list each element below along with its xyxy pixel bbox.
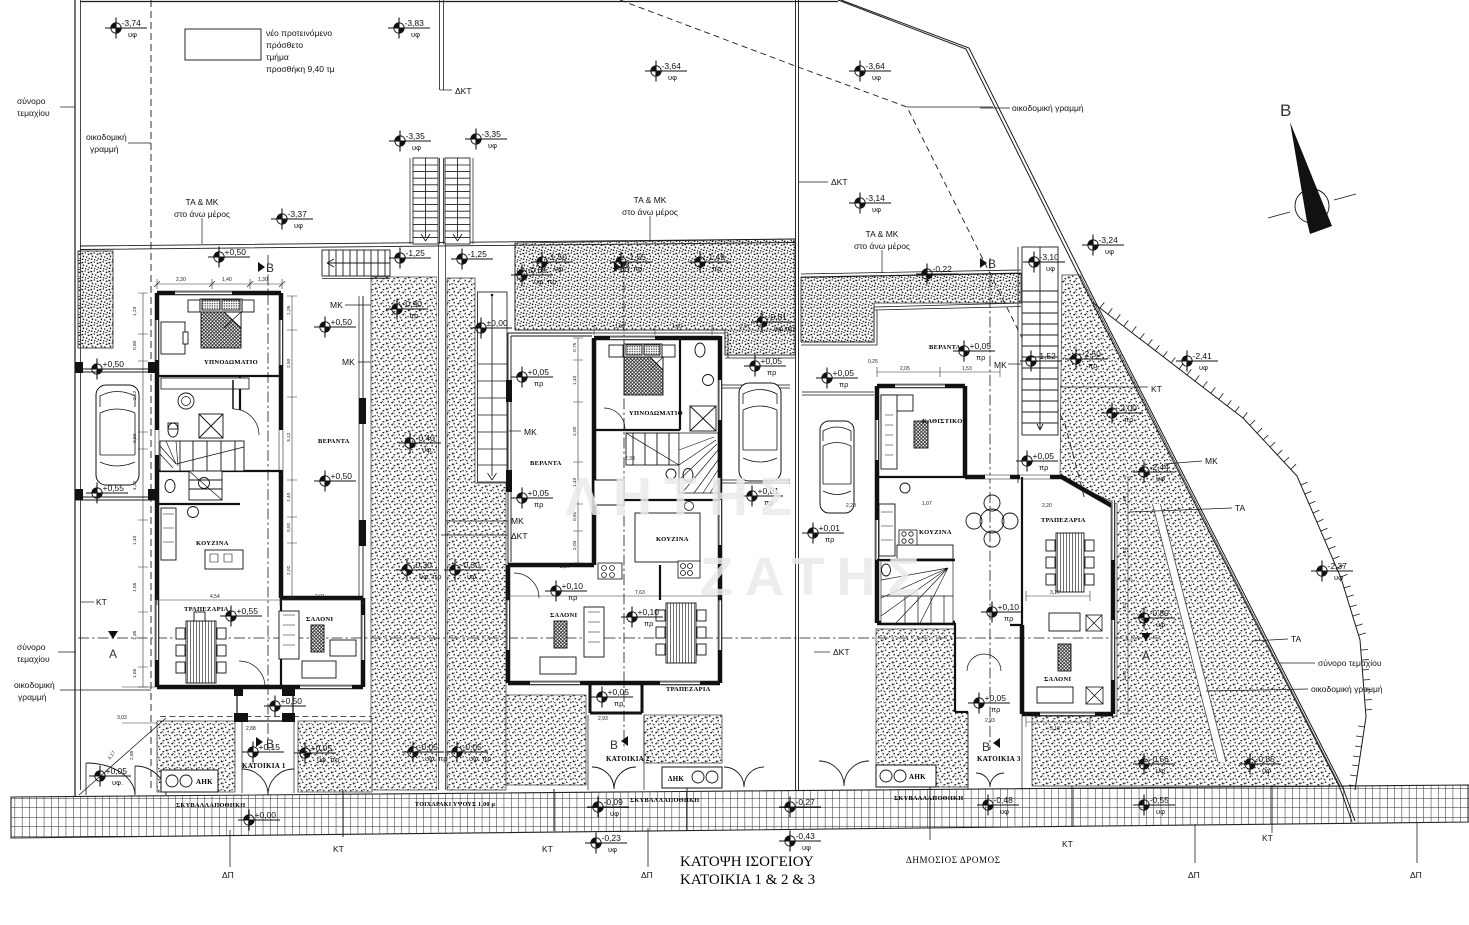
dining table house1	[176, 612, 226, 683]
dense stipple band above house 2	[515, 239, 795, 355]
svg-text:+0,10: +0,10	[562, 581, 584, 591]
svg-text:B: B	[988, 257, 996, 271]
svg-text:+0,50: +0,50	[225, 247, 247, 257]
svg-text:πρ: πρ	[1124, 415, 1133, 424]
svg-text:-0,05: -0,05	[419, 742, 439, 752]
svg-text:ΚΤ: ΚΤ	[333, 844, 344, 854]
svg-text:ΛΗΤΗΣ: ΛΗΤΗΣ	[565, 467, 804, 527]
veranda 2 boundary	[508, 333, 592, 565]
car 2	[739, 383, 781, 481]
svg-text:-0,30: -0,30	[413, 560, 433, 570]
svg-text:+0,05: +0,05	[761, 356, 783, 366]
svg-text:ΒΕΡΑΝΤΑ: ΒΕΡΑΝΤΑ	[318, 438, 350, 445]
svg-text:ΑΗΚ: ΑΗΚ	[196, 778, 213, 786]
svg-text:πρόσθετο: πρόσθετο	[266, 40, 303, 50]
svg-text:-3,83: -3,83	[405, 18, 425, 28]
svg-text:2,12: 2,12	[132, 390, 138, 400]
DKT divider plot2/3 double vertical	[796, 0, 799, 790]
svg-text:1,40: 1,40	[222, 277, 232, 283]
svg-text:B: B	[266, 261, 274, 275]
svg-text:-1,49: -1,49	[706, 252, 726, 262]
svg-text:υφ. πρ.: υφ. πρ.	[534, 277, 559, 286]
svg-text:υφ: υφ	[1156, 620, 1165, 629]
spot elevation -0,48 υφ	[977, 795, 1019, 817]
svg-text:ΚΟΥΖΙΝΑ: ΚΟΥΖΙΝΑ	[196, 540, 229, 547]
svg-text:τμήμα: τμήμα	[266, 52, 289, 62]
svg-text:+0,05: +0,05	[608, 687, 630, 697]
wc house1	[165, 480, 175, 493]
bath door arc	[233, 409, 259, 435]
stairs house1 upper run	[160, 441, 244, 471]
svg-text:ΣΑΛΟΝΙ: ΣΑΛΟΝΙ	[550, 612, 577, 619]
svg-text:1,40: 1,40	[132, 535, 138, 545]
svg-text:+0,05: +0,05	[985, 693, 1007, 703]
svg-text:ΚΟΥΖΙΝΑ: ΚΟΥΖΙΝΑ	[656, 536, 689, 543]
svg-text:ΣΚΥΒΑΛΛΑΠΟΘΗΚΗ: ΣΚΥΒΑΛΛΑΠΟΘΗΚΗ	[630, 797, 699, 804]
dim chain house1 left	[138, 293, 148, 687]
spot elevation -0,30 υφ.	[444, 560, 486, 582]
svg-text:B: B	[622, 261, 630, 275]
svg-text:προσθήκη 9,40 τμ: προσθήκη 9,40 τμ	[266, 64, 335, 74]
sofa L kathistiko	[881, 395, 913, 469]
svg-text:ΔΚΤ: ΔΚΤ	[833, 647, 850, 657]
stipple patch left boundary	[78, 251, 113, 348]
svg-text:-0,81: -0,81	[768, 312, 788, 322]
svg-text:-2,37: -2,37	[1328, 561, 1348, 571]
svg-text:στο άνω μέρος: στο άνω μέρος	[174, 209, 230, 219]
spot elevation -0,56 υφ	[1133, 754, 1175, 776]
watermark faint	[565, 467, 932, 607]
living door arc house2	[514, 573, 539, 598]
svg-text:0,92: 0,92	[286, 522, 292, 532]
svg-text:-0,05: -0,05	[463, 742, 483, 752]
leader synoro right	[1279, 662, 1315, 664]
driveway diagonal plot1	[79, 718, 166, 795]
house 2 exterior walls	[508, 336, 720, 683]
entrance door arc house1	[239, 661, 265, 687]
svg-text:5,70: 5,70	[1122, 670, 1128, 680]
svg-text:-3,37: -3,37	[288, 209, 308, 219]
plot2 terrace lower lines	[515, 243, 795, 358]
svg-text:υφ: υφ	[1199, 363, 1208, 372]
leader synoro/oikodomiki left lower	[58, 652, 151, 690]
house 3 window gaps	[877, 386, 1113, 714]
svg-text:B: B	[610, 738, 618, 752]
stipple patch house2 entrance left	[506, 695, 586, 785]
spot elevation +0,05 πρ	[744, 356, 786, 378]
svg-text:4,54: 4,54	[210, 594, 220, 600]
walkway edges house2	[588, 715, 644, 790]
svg-text:-1,25: -1,25	[468, 249, 488, 259]
svg-text:υφ. πρ: υφ. πρ	[317, 755, 340, 764]
top boundary	[80, 1, 838, 3]
svg-text:+0,00: +0,00	[255, 810, 277, 820]
svg-text:ΚΑΤΟΙΚΙΑ 1 & 2 & 3: ΚΑΤΟΙΚΙΑ 1 & 2 & 3	[680, 872, 815, 888]
svg-text:υφ: υφ	[488, 141, 497, 150]
house 1 exterior walls	[157, 293, 363, 687]
svg-text:ΤΑ: ΤΑ	[1291, 634, 1302, 644]
walkway edges house1	[242, 721, 294, 793]
svg-text:2,20: 2,20	[846, 503, 856, 509]
svg-text:πρ: πρ	[534, 379, 543, 388]
svg-text:-0,85: -0,85	[1256, 754, 1276, 764]
svg-text:ΒΕΡΑΝΤΑ: ΒΕΡΑΝΤΑ	[530, 460, 562, 467]
svg-text:3,13: 3,13	[1050, 726, 1060, 732]
leader synoro top-left	[60, 106, 75, 108]
svg-text:+0,05: +0,05	[106, 766, 128, 776]
desk house1	[161, 322, 185, 354]
stairs house2 run	[626, 433, 679, 465]
leader DKT top center	[440, 89, 452, 91]
svg-text:ΥΠΝΟΔΩΜΑΤΙΟ: ΥΠΝΟΔΩΜΑΤΙΟ	[204, 359, 258, 366]
leader oikodomiki top-right	[980, 107, 1010, 109]
corridor edges house3	[968, 712, 1022, 790]
svg-text:+0,55: +0,55	[237, 606, 259, 616]
outdoor stair left of house 2	[478, 292, 508, 482]
svg-text:-3,64: -3,64	[662, 61, 682, 71]
svg-text:-3,74: -3,74	[122, 18, 142, 28]
svg-text:ΑΗΚ: ΑΗΚ	[909, 773, 926, 781]
svg-text:οικοδομική: οικοδομική	[14, 680, 55, 690]
svg-text:ΔΠ: ΔΠ	[222, 870, 234, 880]
svg-text:-2,44: -2,44	[1150, 462, 1170, 472]
road leader DP lines	[230, 822, 1417, 867]
svg-text:ΚΤ: ΚΤ	[1262, 833, 1273, 843]
svg-text:ΜΚ: ΜΚ	[330, 300, 343, 310]
horizontal stair landing left of stair A	[322, 250, 390, 279]
spot elevation -1,25	[451, 249, 493, 270]
svg-text:οικοδομική γραμμή: οικοδομική γραμμή	[1012, 103, 1084, 113]
svg-text:2,93: 2,93	[598, 716, 608, 722]
upper region bottom double line	[80, 239, 795, 250]
spot elevation -0,55 υφ	[1133, 795, 1175, 817]
house 2 interior partitions	[594, 338, 720, 600]
svg-text:1,60: 1,60	[1122, 495, 1128, 505]
spot elevation +0,05 πρ	[511, 367, 553, 389]
stipple band between house 1 and 2	[371, 277, 437, 790]
svg-text:2,89: 2,89	[129, 750, 135, 760]
svg-text:ΤΑ & ΜΚ: ΤΑ & ΜΚ	[186, 197, 219, 207]
dim house2 bottom interior	[508, 591, 720, 601]
svg-text:1,53: 1,53	[615, 324, 625, 330]
svg-text:υφ.: υφ.	[112, 778, 123, 787]
stipple patch house3 entrance left	[876, 629, 968, 787]
svg-text:στο άνω μέρος: στο άνω μέρος	[854, 241, 910, 251]
svg-text:-0,55: -0,55	[1150, 795, 1170, 805]
svg-text:υφ πρ: υφ πρ	[774, 324, 795, 333]
house 3 interior partitions	[877, 477, 1022, 625]
svg-text:±0,00: ±0,00	[487, 318, 508, 328]
dim chain house1 right	[287, 296, 297, 598]
AHK box 3	[876, 765, 936, 787]
car 1	[96, 385, 139, 485]
svg-text:υφ: υφ	[608, 845, 617, 854]
svg-text:ΚΑΤΟΙΚΙΑ 2: ΚΑΤΟΙΚΙΑ 2	[606, 755, 650, 763]
carport 2	[722, 385, 790, 483]
svg-text:οικοδομική: οικοδομική	[86, 132, 127, 142]
winder stairs house2	[679, 433, 718, 493]
svg-text:2,02: 2,02	[286, 565, 292, 575]
spot elevation -3,35 υφ	[465, 129, 507, 151]
svg-text:πρ: πρ	[712, 264, 721, 273]
svg-text:2,03: 2,03	[572, 540, 578, 550]
dim chain house3 top	[877, 367, 1000, 377]
bed house2	[609, 344, 675, 395]
spot elevation -2,50 πρ	[1065, 349, 1107, 371]
svg-text:ΚΑΘΙΣΤΙΚΟ: ΚΑΘΙΣΤΙΚΟ	[922, 418, 963, 425]
retaining wall gap MK	[437, 244, 447, 790]
road chainage ticks	[343, 785, 1272, 837]
spot elevation -0,27	[779, 797, 821, 818]
svg-text:πρ: πρ	[839, 380, 848, 389]
svg-text:ΣΑΛΟΝΙ: ΣΑΛΟΝΙ	[306, 616, 333, 623]
svg-text:+0,05: +0,05	[311, 743, 333, 753]
svg-text:A: A	[109, 647, 117, 661]
section line B-B house1	[267, 255, 269, 750]
svg-text:πρ: πρ	[991, 705, 1000, 714]
svg-text:γραμμή: γραμμή	[90, 144, 119, 154]
svg-text:υφ: υφ	[1046, 264, 1055, 273]
spot elevation +0,10 πρ	[981, 602, 1023, 624]
dim house1 bottom interior	[157, 595, 363, 605]
svg-text:ΤΡΑΠΕΖΑΡΙΑ: ΤΡΑΠΕΖΑΡΙΑ	[1041, 517, 1086, 524]
svg-text:ΔΗΚ: ΔΗΚ	[668, 775, 684, 783]
svg-text:+0,50: +0,50	[331, 471, 353, 481]
carport 3 edges	[802, 392, 874, 395]
svg-text:1,35: 1,35	[132, 630, 138, 640]
dim chain house1 top	[157, 279, 282, 289]
svg-text:υφ: υφ	[802, 843, 811, 852]
spot elevation -2,41 υφ	[1176, 351, 1218, 373]
svg-text:ΔΚΤ: ΔΚΤ	[511, 531, 528, 541]
spot elevation -1,50 υφ.	[531, 252, 573, 274]
svg-text:+0,50: +0,50	[103, 359, 125, 369]
leader TA lower right	[1252, 639, 1288, 641]
svg-text:ΚΑΤΟΙΚΙΑ 1: ΚΑΤΟΙΚΙΑ 1	[242, 762, 286, 770]
ticked parcel boundary right	[1092, 302, 1366, 790]
salon house2 sofas	[584, 607, 604, 657]
dashed building line plot1 vertical	[150, 0, 152, 790]
leader KT left	[81, 601, 94, 603]
svg-text:στο άνω μέρος: στο άνω μέρος	[622, 207, 678, 217]
kitchen house2	[635, 513, 700, 562]
svg-text:πρ: πρ	[825, 535, 834, 544]
leader TA&MK plot2	[649, 216, 651, 240]
spot elevation +0,05 πρ	[1016, 451, 1058, 473]
wc house3	[882, 564, 891, 576]
winder stair house3	[881, 561, 953, 623]
svg-text:υφ. πρ: υφ. πρ	[469, 754, 492, 763]
svg-text:πρ: πρ	[1039, 463, 1048, 472]
carport3 gate arcs	[819, 761, 869, 786]
svg-text:-3,10: -3,10	[1040, 252, 1060, 262]
house2 entrance gate arcs	[592, 767, 636, 789]
svg-text:ΤΑ & ΜΚ: ΤΑ & ΜΚ	[634, 195, 667, 205]
spot elevation -0,65 υφ. πρ.	[511, 265, 559, 287]
svg-text:υφ: υφ	[1156, 807, 1165, 816]
spot elevation +0,50	[314, 317, 356, 338]
svg-text:-3,35: -3,35	[482, 129, 502, 139]
big outdoor stair plot 3	[1018, 247, 1058, 483]
slanted site boundary double line	[838, 0, 1352, 822]
svg-text:νέο προτεινόμενο: νέο προτεινόμενο	[266, 28, 332, 38]
svg-text:ΤΑ & ΜΚ: ΤΑ & ΜΚ	[866, 229, 899, 239]
leader KT right slope	[1060, 386, 1148, 388]
svg-text:1,23: 1,23	[132, 306, 138, 316]
section A marker left	[108, 631, 118, 639]
svg-text:υφ: υφ	[1105, 247, 1114, 256]
svg-text:1,40: 1,40	[1122, 547, 1128, 557]
svg-text:υφ: υφ	[872, 73, 881, 82]
svg-text:+0,05: +0,05	[528, 367, 550, 377]
svg-text:-0,09: -0,09	[604, 797, 624, 807]
svg-text:υφ. πρ: υφ. πρ	[425, 754, 448, 763]
svg-text:+0,05: +0,05	[833, 368, 855, 378]
svg-text:1,26: 1,26	[286, 305, 292, 315]
spot elevation +0,50	[86, 359, 128, 380]
svg-text:τεμαχίου: τεμαχίου	[17, 654, 50, 664]
spot elevation +0,01 πρ	[741, 486, 783, 508]
svg-text:υφ.: υφ.	[467, 572, 478, 581]
spot elevation +0,55	[220, 606, 262, 627]
svg-text:ΚΤ: ΚΤ	[1062, 839, 1073, 849]
spot elevation 0,00 stair	[470, 318, 512, 339]
dashed building line diagonal right	[620, 0, 1085, 500]
svg-text:0,80: 0,80	[132, 340, 138, 350]
spot elevation -0,40 υφ.	[399, 433, 441, 455]
house 1 window gaps	[157, 293, 363, 687]
section A marker right	[1141, 633, 1151, 641]
svg-text:ΥΠΝΟΔΩΜΑΤΙΟ: ΥΠΝΟΔΩΜΑΤΙΟ	[629, 410, 683, 417]
dim chain house2 top	[594, 325, 790, 335]
svg-text:+0,50: +0,50	[281, 696, 303, 706]
svg-text:-1,50: -1,50	[548, 252, 568, 262]
carport 1 piers	[75, 362, 156, 500]
svg-text:+0,05: +0,05	[970, 341, 992, 351]
svg-text:-1,52: -1,52	[1037, 351, 1057, 361]
house 3 entry corridor walls	[955, 623, 1022, 712]
svg-text:πρ: πρ	[633, 264, 642, 273]
svg-text:ΜΚ: ΜΚ	[511, 516, 524, 526]
big stipple wedge right of house 3	[1032, 275, 1340, 786]
svg-text:ΣΑΛΟΝΙ: ΣΑΛΟΝΙ	[1044, 676, 1071, 683]
bedroom door arc house2	[604, 408, 625, 429]
svg-text:πρ: πρ	[976, 353, 985, 362]
svg-text:ΚΟΥΖΙΝΑ: ΚΟΥΖΙΝΑ	[919, 529, 952, 536]
leader DKT top right	[799, 181, 828, 183]
spot elevation +0,00	[238, 810, 280, 831]
spot elevation -3,74 υφ	[105, 18, 147, 40]
svg-text:1,65: 1,65	[132, 668, 138, 678]
svg-text:+0,05: +0,05	[528, 488, 550, 498]
svg-text:υφ: υφ	[610, 809, 619, 818]
svg-text:υφ: υφ	[412, 143, 421, 152]
spot elevation -0,09 υφ	[587, 797, 629, 819]
house 2 window gaps	[508, 338, 720, 683]
svg-text:ΜΚ: ΜΚ	[1205, 456, 1218, 466]
section line B-B house3	[989, 258, 991, 750]
section line B-B house2	[623, 262, 625, 750]
dim house1 entry verticals	[122, 687, 157, 723]
spot elevation +0,50	[314, 471, 356, 492]
svg-text:0,50: 0,50	[132, 433, 138, 443]
svg-text:-3,35: -3,35	[406, 131, 426, 141]
svg-text:-1,25: -1,25	[406, 248, 426, 258]
svg-text:υφ: υφ	[1000, 807, 1009, 816]
leader MK plot1 veranda	[345, 305, 371, 362]
upper region left edge	[80, 0, 82, 790]
svg-text:-3,14: -3,14	[866, 193, 886, 203]
dining table house2	[656, 603, 706, 663]
AHK box 1	[161, 770, 218, 792]
spot elevation -0,80 υφ	[1133, 608, 1175, 630]
svg-text:-3,64: -3,64	[866, 61, 886, 71]
spot elevation +0,15	[242, 742, 284, 763]
svg-text:ΔΠ: ΔΠ	[1410, 870, 1422, 880]
svg-text:σύνορο τεμαχίου: σύνορο τεμαχίου	[1318, 658, 1382, 668]
stairs house1 lower run	[189, 471, 222, 500]
leader DKT road3	[814, 651, 830, 653]
svg-text:-0,80: -0,80	[1150, 608, 1170, 618]
stipple patch house1 entrance right	[298, 721, 372, 792]
svg-text:ΜΚ: ΜΚ	[994, 360, 1007, 370]
house 1 interior partitions	[157, 376, 281, 687]
svg-text:ΔΚΤ: ΔΚΤ	[831, 177, 848, 187]
carport2 gate arcs	[724, 767, 764, 787]
leader TA&MK plot3	[881, 250, 883, 273]
svg-text:υφ: υφ	[1156, 766, 1165, 775]
leader MK/DKT house2 left	[441, 521, 508, 535]
spot elevation -3,14 υφ	[849, 193, 891, 215]
bath house1 fixtures	[161, 378, 249, 389]
B marker triangles	[256, 258, 1000, 748]
svg-text:B: B	[982, 740, 990, 754]
leader oikodomiki left	[128, 142, 151, 144]
spot elevation -0,85 υφ	[1239, 754, 1281, 776]
section line A-A dash-dot	[78, 637, 1160, 639]
svg-text:2,50: 2,50	[286, 358, 292, 368]
svg-text:+0,05: +0,05	[1033, 451, 1055, 461]
svg-text:πρ: πρ	[644, 619, 653, 628]
house1 entrance gate arcs	[242, 769, 294, 795]
spot elevation -3,64 υφ	[849, 61, 891, 83]
spot elevation -2,37 υφ	[1311, 561, 1353, 583]
kitchen house3 counters	[879, 504, 895, 556]
svg-text:υφ. πρ: υφ. πρ	[419, 572, 442, 581]
svg-text:πρ: πρ	[409, 311, 418, 320]
spot elevation -1,55 πρ	[610, 252, 652, 274]
dim house3 interior 3,17 / 3,13	[1026, 591, 1090, 601]
svg-text:2,00: 2,00	[572, 426, 578, 436]
spot elevation -0,22	[916, 264, 958, 285]
svg-text:-2,50: -2,50	[1082, 349, 1102, 359]
svg-text:+0,10: +0,10	[998, 602, 1020, 612]
svg-text:1,61: 1,61	[1122, 602, 1128, 612]
spot elevation -1,49 πρ	[689, 252, 731, 274]
svg-text:-2,00: -2,00	[1118, 403, 1138, 413]
svg-text:γραμμή: γραμμή	[18, 692, 47, 702]
spot elevation +0,05 πρ	[953, 341, 995, 363]
svg-text:οικοδομική γραμμή: οικοδομική γραμμή	[1311, 684, 1383, 694]
spot elevation +0,01 πρ	[802, 523, 844, 545]
public road crosshatched strip	[11, 785, 1469, 838]
leader MK right slope	[1164, 461, 1202, 464]
svg-text:-2,41: -2,41	[1193, 351, 1213, 361]
spot elevation -0,30 υφ. πρ	[396, 560, 442, 582]
svg-text:σύνορο: σύνορο	[17, 642, 46, 652]
spot elevation +0,10 πρ	[621, 607, 663, 629]
svg-text:ΤΡΑΠΕΖΑΡΙΑ: ΤΡΑΠΕΖΑΡΙΑ	[184, 606, 229, 613]
